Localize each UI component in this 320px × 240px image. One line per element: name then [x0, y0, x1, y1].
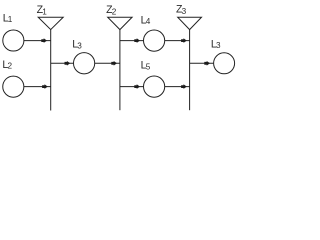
antenna Z2	[108, 17, 132, 29]
arrowhead L5 to Z3	[181, 84, 187, 89]
wire L5 to Z3	[165, 86, 190, 88]
svg-text:Z3: Z3	[176, 4, 187, 17]
wire L2 to Z1	[24, 86, 51, 88]
wire Z1 to L3	[51, 62, 74, 64]
node L3 middle circle	[74, 53, 95, 74]
svg-text:Z2: Z2	[106, 4, 117, 17]
arrowhead into L5	[134, 84, 140, 89]
svg-text:L2: L2	[2, 59, 12, 71]
svg-text:L5: L5	[141, 60, 151, 72]
node L2 circle	[3, 76, 24, 97]
arrowhead L1 wire	[41, 38, 47, 43]
wire L1 to Z1	[24, 40, 51, 42]
node L3 right circle	[214, 53, 235, 74]
wire Z2 to L4	[120, 40, 143, 42]
arrowhead into L3 right	[204, 61, 210, 66]
arrowhead L2 wire	[42, 84, 48, 89]
wire stem Z2	[119, 30, 121, 111]
arrowhead into L4	[134, 38, 140, 43]
antenna Z3	[178, 17, 202, 29]
svg-text:L3: L3	[72, 39, 82, 51]
wire L4 to Z3	[165, 40, 190, 42]
wire stem Z1	[50, 30, 52, 111]
node L4 circle	[144, 30, 165, 51]
wire L3 to Z2	[95, 62, 120, 64]
wire Z3 to L3 right	[190, 62, 214, 64]
arrowhead into Z2	[111, 61, 117, 66]
antenna Z1	[38, 17, 63, 29]
svg-text:L3: L3	[211, 38, 221, 50]
wire stem Z3	[189, 30, 191, 111]
svg-text:Z1: Z1	[37, 4, 48, 17]
wire Z2 to L5	[120, 86, 143, 88]
arrowhead into L3	[65, 61, 71, 66]
svg-text:L4: L4	[141, 14, 151, 26]
node L5 circle	[144, 76, 165, 97]
node L1 circle	[3, 30, 24, 51]
svg-text:L1: L1	[3, 12, 13, 24]
arrowhead L4 to Z3	[181, 38, 187, 43]
